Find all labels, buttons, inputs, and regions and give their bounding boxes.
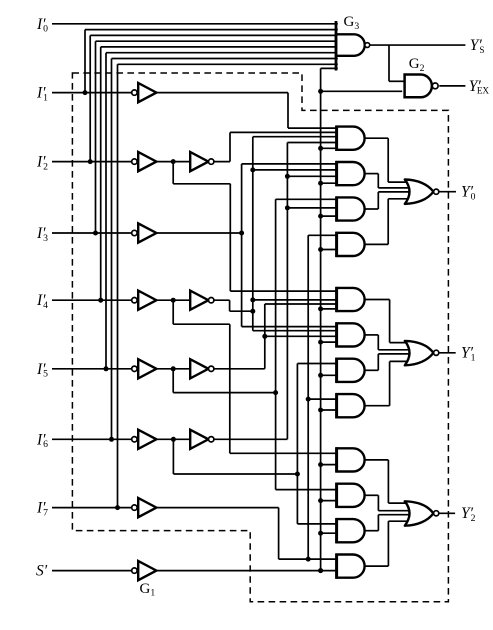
wire I7 into AND12 (279, 558, 339, 560)
wire input I'0 line to G3 (52, 23, 338, 25)
wire AND2 output (365, 173, 379, 175)
junction dot (88, 159, 93, 164)
wire I4 into AND9 (230, 452, 338, 454)
wire AND12 to NOR (387, 521, 389, 566)
wire AND4 output (365, 243, 389, 245)
and gate A4 (337, 233, 365, 256)
inverter buffer for I'5 (132, 366, 137, 371)
junction dot (285, 174, 290, 179)
junction dot (318, 214, 323, 219)
wire Y'2 output line (439, 512, 455, 514)
junction dot (318, 408, 323, 413)
junction dot (250, 297, 255, 302)
wire I2 down to AND5 (229, 184, 231, 291)
wire Y'1 output line (439, 352, 456, 354)
junction dot (318, 462, 323, 467)
wire I'5 top run to G3 (106, 52, 338, 54)
inverter buffer for I'7 (132, 505, 137, 510)
second inverter for I'4 (190, 291, 208, 310)
wire EI stub into AND8 (321, 409, 339, 411)
wire AND7 to NOR (377, 354, 379, 370)
buffer G1 (132, 568, 137, 573)
wire Ib4 into AND6 (253, 330, 338, 332)
wire input I'2 line (52, 161, 132, 163)
wire Ib6 into AND1 (287, 142, 338, 144)
wire input I'1 line (52, 92, 132, 94)
junction dot (318, 146, 323, 151)
wire I7 buffered line (157, 507, 279, 509)
wire I6 drop (172, 439, 174, 474)
wire I5 column (275, 199, 277, 489)
and gate A5 (337, 288, 365, 311)
and gate A11 (337, 519, 365, 542)
wire EI stub into AND3 (321, 215, 339, 217)
wire into NOR input (378, 187, 410, 189)
wire Ib5 into AND6 (265, 335, 338, 337)
inverter buffer for I'3 (132, 230, 137, 235)
and gate A10 (337, 484, 365, 507)
wire EI stub into AND10 (321, 500, 339, 502)
wire I'4 top run to G3 (101, 46, 338, 48)
and gate A6 (337, 323, 365, 346)
wire I'1 riser to G3 (84, 30, 86, 93)
wire I7 into AND8 (308, 398, 338, 400)
inverter buffer for I'1 (132, 90, 137, 95)
and gate A2 (337, 162, 365, 185)
wire Ib4 into AND5 (253, 299, 338, 301)
junction dot (115, 505, 120, 510)
wire G2 output to Y'EX (439, 85, 465, 87)
wire I4 drop (172, 300, 174, 324)
wire I'7 top run to G3 (118, 63, 338, 65)
junction dot (250, 167, 255, 172)
wire Ib4 into AND2 (253, 169, 338, 171)
wire EI stub into AND1 (321, 147, 339, 149)
junction dot (273, 390, 278, 395)
wire I2 drop (172, 162, 174, 184)
and gate A8 (337, 394, 365, 417)
wire AND5 output (365, 299, 390, 301)
wire AND9 output (365, 459, 389, 461)
junction dot (306, 397, 311, 402)
second inverter for I'5 (190, 359, 208, 378)
wire EI stub into AND9 (321, 464, 339, 466)
wire Ib2 riser (229, 132, 231, 161)
svg-text:S′: S′ (36, 563, 48, 580)
and gate A9 (337, 448, 365, 471)
wire I5 into AND10 (276, 489, 339, 491)
junction dot (295, 472, 300, 477)
wire EI stub into AND5 (321, 308, 339, 310)
wire into NOR input (390, 360, 408, 362)
wire branch down to G2 (388, 45, 390, 81)
wire I5 jog right (173, 392, 275, 394)
inverter buffer for I'4 (132, 298, 137, 303)
junction dot (285, 205, 290, 210)
wire into NOR input (378, 191, 410, 193)
wire I5 into AND3 (276, 198, 339, 200)
junction dot (93, 231, 98, 236)
wire AND1 output (365, 137, 389, 139)
wire into NOR input (378, 353, 410, 355)
and gate A3 (337, 197, 365, 220)
junction dot (318, 568, 323, 573)
junction dot (171, 366, 176, 371)
wire EI stub into AND11 (321, 532, 339, 534)
wire Ib4 column (252, 137, 254, 331)
wire I2 jog right (173, 183, 230, 185)
wire Ib6 into AND2 (287, 175, 338, 177)
wire input S' line (52, 570, 132, 572)
wire into NOR input (378, 349, 410, 351)
junction dot (83, 90, 88, 95)
and gate A1 (337, 127, 365, 150)
wire G3 output to Y'S (370, 44, 466, 46)
wire I7 column (307, 235, 309, 559)
wire I6 into AND7 (297, 363, 338, 365)
wire AND11 to NOR (377, 515, 379, 531)
wire AND3 output (365, 208, 379, 210)
wire I7 drop (278, 508, 280, 559)
wire into NOR input (378, 510, 410, 512)
wire AND9 to NOR (387, 460, 389, 503)
wire I'4 riser to G3 (100, 47, 102, 300)
wire into NOR input (388, 181, 407, 183)
nand gate G3 (336, 34, 365, 56)
wire I'1 top run to G3 (85, 29, 338, 31)
wire AND6 output (365, 334, 379, 336)
wire AND1 to NOR (387, 138, 389, 182)
junction dot (318, 89, 323, 94)
junction dot (318, 531, 323, 536)
wire Ib6 into AND3 (287, 207, 338, 209)
wire Ib5 into AND5 (265, 303, 338, 305)
wire EI into G3 9th input (321, 67, 338, 69)
wire Ib5 column (264, 304, 266, 369)
junction dot (109, 437, 114, 442)
wire I'5 riser to G3 (105, 53, 107, 369)
wire Ib5 from 2nd inverter (214, 368, 265, 370)
wire I5 buffered line (157, 368, 191, 370)
wire input I'4 line (52, 299, 132, 301)
junction dot (98, 298, 103, 303)
wire AND11 output (365, 530, 379, 532)
junction dot (306, 557, 311, 562)
wire I5 drop (172, 369, 174, 393)
wire I'3 riser to G3 (95, 41, 97, 233)
junction dot (171, 298, 176, 303)
wire input I'3 line (52, 232, 132, 234)
junction dot (318, 498, 323, 503)
nor gate Y0 (405, 180, 434, 204)
and gate A7 (337, 359, 365, 382)
wire Y'0 output line (439, 191, 456, 193)
second inverter for I'2 (190, 152, 208, 171)
wire input I'7 line (52, 507, 132, 509)
wire AND5 to NOR (389, 300, 391, 343)
wire AND10 output (365, 494, 379, 496)
wire Ib4 jog down (229, 300, 231, 311)
wire into NOR input (378, 514, 410, 516)
wire input I'5 line (52, 368, 132, 370)
wire AND8 to NOR (389, 361, 391, 405)
wire I6 into AND11 (297, 523, 338, 525)
second inverter for I'6 (190, 430, 208, 449)
junction dot (104, 366, 109, 371)
junction dot (318, 306, 323, 311)
wire EI stub into AND6 (321, 341, 339, 343)
wire I6 jog right (173, 473, 297, 475)
wire Ib6 column (286, 143, 288, 440)
wire into NOR input (390, 342, 408, 344)
wire Ib4 from 2nd inverter (214, 299, 230, 301)
wire into NOR input (388, 502, 407, 504)
junction dot (318, 340, 323, 345)
wire AND6 to NOR (377, 335, 379, 350)
junction dot (171, 437, 176, 442)
wire I2 into AND5 (230, 290, 338, 292)
wire EI vertical from G1 to G3 (320, 68, 322, 570)
junction dot (250, 309, 255, 314)
wire I'6 riser to G3 (111, 59, 113, 440)
wire Ib6 from 2nd inverter (214, 438, 288, 440)
nor gate Y1 (405, 341, 434, 365)
wire I2 buffered line (157, 161, 191, 163)
junction dot (318, 181, 323, 186)
nor gate Y2 (405, 501, 434, 525)
wire Ib4 into AND1 (253, 136, 338, 138)
and gate A12 (337, 555, 365, 578)
wire I'2 top run to G3 (90, 34, 338, 36)
junction dot (318, 247, 323, 252)
wire EI stub into AND2 (321, 182, 339, 184)
wire into G2 input 1 (389, 80, 405, 82)
wire Ib2 from 2nd inverter (214, 161, 230, 163)
dashed enclosure box (72, 73, 448, 602)
junction dot (318, 568, 323, 573)
junction dot (171, 159, 176, 164)
wire input I'6 line (52, 438, 132, 440)
wire I6 buffered line (157, 438, 191, 440)
wire I6 column (296, 364, 298, 524)
wire I3 column (241, 164, 243, 327)
wire AND7 output (365, 369, 379, 371)
nand gate G2 (405, 75, 432, 98)
wire into NOR input (388, 198, 407, 200)
inverter buffer for I'6 (132, 437, 137, 442)
wire AND8 output (365, 405, 390, 407)
inverter buffer for I'2 (132, 159, 137, 164)
wire I4 down to AND9 (229, 324, 231, 453)
wire I'6 top run to G3 (112, 58, 338, 60)
wire I3 into AND2 (242, 163, 339, 165)
wire Ib2 into AND1 (230, 131, 338, 133)
wire EI stub into AND4 (321, 249, 339, 251)
wire AND10 to NOR (377, 495, 379, 510)
wire I1 drop to AND1 (287, 93, 289, 129)
wire I'3 top run to G3 (96, 40, 338, 42)
wire into NOR input (388, 520, 407, 522)
junction dot (262, 334, 267, 339)
wire G1 output line (EI) (157, 570, 339, 572)
wire I4 buffered line (157, 299, 191, 301)
junction dot (318, 373, 323, 378)
wire I1 into AND1 (288, 127, 338, 129)
wire AND3 to NOR (377, 192, 379, 209)
wire I3 buffered line (157, 232, 242, 234)
wire I'2 riser to G3 (89, 35, 91, 161)
wire AND2 to NOR (377, 174, 379, 188)
wire I1 buffered line (157, 92, 288, 94)
wire AND4 to NOR (387, 199, 389, 245)
wire I3 into AND6 (242, 326, 339, 328)
wire AND12 output (365, 565, 389, 567)
junction dot (239, 231, 244, 236)
wire I4 jog right (173, 323, 230, 325)
wire EI into G2 input (321, 90, 403, 92)
wire I'7 riser to G3 (117, 64, 119, 507)
wire Ib4 jog right (230, 310, 253, 312)
wire I7 into AND4 (308, 234, 338, 236)
wire EI stub into AND7 (321, 374, 339, 376)
